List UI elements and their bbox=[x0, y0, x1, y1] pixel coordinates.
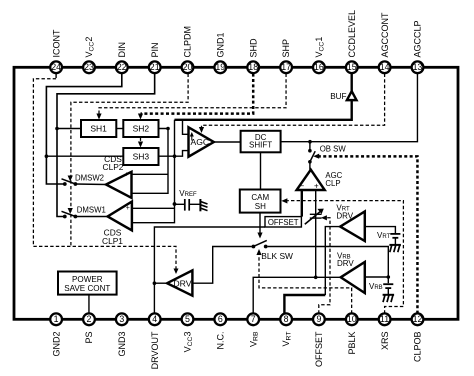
svg-text:17: 17 bbox=[281, 62, 291, 72]
wire CDS CLP2 upper input stub bbox=[132, 173, 169, 175]
ground VRB bbox=[383, 295, 395, 302]
svg-text:PBLK: PBLK bbox=[347, 332, 357, 355]
node AGC CLP plus ref junction bbox=[314, 276, 318, 280]
svg-text:+: + bbox=[314, 182, 319, 191]
pin 15 (CCDLEVEL) bbox=[346, 10, 358, 73]
switch DMSW1 bbox=[62, 205, 106, 218]
svg-text:SH1: SH1 bbox=[90, 124, 107, 134]
node VRB cap junction bbox=[387, 275, 391, 279]
svg-text:3: 3 bbox=[119, 314, 124, 324]
pin 8 (VRT) bbox=[280, 313, 292, 346]
wire SH2 to SH3 dashed arrow bbox=[140, 138, 142, 144]
pin 19 (GND1) bbox=[214, 32, 226, 73]
node SH3 input junction bbox=[45, 154, 49, 158]
wire VREF rail vertical bbox=[132, 120, 175, 223]
svg-text:−: − bbox=[299, 182, 304, 191]
wire CLPDM pin20 dashed to DMSW1/DMSW2 bbox=[71, 74, 188, 247]
svg-text:+: + bbox=[126, 205, 130, 212]
capacitor VREF bbox=[175, 199, 201, 211]
svg-text:AGC: AGC bbox=[191, 137, 210, 147]
node DRV output junction bbox=[153, 281, 157, 285]
wire POWER SAVE CONT to PS pin2 bbox=[88, 295, 90, 314]
block SH1 bbox=[81, 120, 116, 137]
svg-text:SAVE CONT: SAVE CONT bbox=[64, 284, 110, 293]
wire SH3 output bbox=[159, 151, 189, 157]
wire DC SHIFT to CAM SH bbox=[260, 152, 262, 189]
wire AGC CLP plus input ref bbox=[315, 190, 317, 277]
wire SH3 input tap bbox=[46, 155, 123, 157]
wire DC SHIFT output to AGCCLP pin13 bbox=[281, 74, 418, 142]
wire DIN pin22 to SH3/DMSW2 bbox=[46, 74, 121, 184]
svg-text:13: 13 bbox=[413, 62, 423, 72]
svg-text:18: 18 bbox=[248, 62, 258, 72]
switch BLK SW bbox=[252, 240, 294, 261]
pin 5 (VCC3) bbox=[182, 313, 194, 352]
wire CCDLEVEL rail to BUF bbox=[175, 100, 352, 120]
wire SH2 output to CDS CLP2 bbox=[132, 129, 169, 194]
svg-text:DMSW1: DMSW1 bbox=[77, 205, 106, 214]
arrowhead into CAM SH bbox=[281, 198, 287, 203]
pin 4 (DRVOUT) bbox=[149, 313, 161, 369]
svg-text:AGCCONT: AGCCONT bbox=[380, 12, 390, 58]
svg-text:19: 19 bbox=[215, 62, 225, 72]
arrowhead into SH1 bbox=[96, 114, 101, 120]
wire BLK SW output to VRB node bbox=[268, 247, 389, 278]
svg-text:PS: PS bbox=[84, 332, 94, 344]
svg-text:23: 23 bbox=[84, 62, 94, 72]
arrowhead onto DMSW2 bbox=[68, 176, 73, 182]
svg-text:SH2: SH2 bbox=[133, 124, 150, 134]
svg-text:22: 22 bbox=[117, 62, 127, 72]
svg-text:BUF: BUF bbox=[330, 92, 346, 101]
svg-text:DRV: DRV bbox=[337, 259, 354, 268]
arrowhead into DRV bbox=[174, 269, 179, 275]
wire AGC upper input stub bbox=[183, 120, 189, 135]
pin 9 (OFFSET) bbox=[313, 313, 325, 367]
switch DMSW2 bbox=[62, 174, 105, 186]
wire SH1 input tap bbox=[57, 128, 81, 130]
svg-text:12: 12 bbox=[413, 314, 423, 324]
pin 3 (GND3) bbox=[116, 313, 128, 356]
wire AGC output to DC SHIFT bbox=[214, 141, 241, 143]
capacitor VRB bbox=[383, 284, 393, 295]
node OB SW tap junction bbox=[308, 140, 312, 144]
svg-text:2: 2 bbox=[87, 314, 92, 324]
wire PBLK pin10 dashed to BLK SW bbox=[259, 254, 352, 314]
wire SHP pin17 dashed to SH1 bbox=[99, 74, 286, 115]
amp DRV bbox=[167, 270, 192, 295]
wire VRT cap stub bbox=[365, 227, 396, 234]
pin 13 (AGCCLP) bbox=[412, 20, 424, 73]
wire CDS CLP1 upper input stub bbox=[132, 207, 175, 209]
pin 21 (PIN) bbox=[149, 42, 161, 73]
pin 17 (SHP) bbox=[280, 39, 292, 73]
svg-text:DMSW2: DMSW2 bbox=[75, 174, 104, 183]
pin 24 (ICONT) bbox=[50, 29, 62, 73]
svg-text:CLP1: CLP1 bbox=[102, 236, 123, 246]
wire CLPOB pin12 bold dashed to OB SW bbox=[318, 156, 417, 313]
capacitor VRT bbox=[390, 234, 400, 245]
ground VREF bbox=[200, 199, 207, 211]
block POWER SAVE CONT bbox=[58, 272, 117, 295]
wire VRT DRV output to VRT pin8 bbox=[325, 227, 340, 295]
op-amp CDS CLP2 bbox=[103, 154, 132, 198]
svg-text:CLPDM: CLPDM bbox=[183, 26, 193, 58]
svg-text:DRVOUT: DRVOUT bbox=[150, 331, 160, 369]
svg-text:15: 15 bbox=[347, 62, 357, 72]
arrowhead onto OB SW bbox=[313, 154, 319, 159]
svg-text:PIN: PIN bbox=[150, 42, 160, 57]
pin 2 (PS) bbox=[83, 313, 95, 343]
arrowhead onto BLK SW bbox=[256, 249, 261, 255]
wire DMSW1 to CDS CLP1 bbox=[75, 216, 107, 218]
svg-text:AGCCLP: AGCCLP bbox=[413, 20, 423, 57]
pin 10 (PBLK) bbox=[346, 313, 358, 354]
pin 23 (VCC2) bbox=[83, 37, 95, 74]
svg-text:DRV: DRV bbox=[173, 279, 191, 289]
arrowhead into AGC bbox=[199, 127, 204, 133]
wire PIN pin21 to SH1/DMSW1 bbox=[57, 74, 155, 217]
amp VRB DRV bbox=[337, 252, 365, 293]
wire SH1 to SH2 bbox=[116, 128, 123, 130]
pin 14 (AGCCONT) bbox=[379, 12, 391, 73]
svg-text:OFFSET: OFFSET bbox=[268, 218, 299, 227]
block SH3 bbox=[123, 148, 158, 165]
block OFFSET bbox=[265, 217, 301, 227]
svg-text:CLPOB: CLPOB bbox=[413, 332, 423, 363]
svg-text:CLP: CLP bbox=[325, 179, 340, 188]
node SH1 input junction bbox=[55, 127, 59, 131]
svg-text:GND2: GND2 bbox=[51, 332, 61, 357]
pin 7 (VRB) bbox=[247, 313, 259, 347]
svg-text:XRS: XRS bbox=[380, 332, 390, 351]
svg-text:ICONT: ICONT bbox=[51, 29, 61, 58]
variable offset element bbox=[305, 209, 324, 225]
pin 16 (VCC1) bbox=[313, 37, 325, 74]
svg-text:SHP: SHP bbox=[281, 39, 291, 58]
wire VRB DRV input stub bbox=[365, 276, 389, 278]
wire DRV output stub bbox=[154, 282, 167, 284]
wire XRS pin11 dashed to CAM SH bbox=[288, 201, 404, 314]
svg-text:4: 4 bbox=[152, 314, 157, 324]
wire AGCCONT pin14 dashed to AGC bbox=[202, 74, 385, 129]
op-amp CDS CLP1 bbox=[102, 202, 132, 246]
svg-text:CCDLEVEL: CCDLEVEL bbox=[347, 10, 357, 58]
svg-text:SH: SH bbox=[255, 202, 266, 211]
svg-text:DRV: DRV bbox=[336, 211, 353, 220]
svg-text:14: 14 bbox=[380, 62, 390, 72]
svg-text:SH3: SH3 bbox=[133, 152, 150, 162]
op-amp AGC bbox=[189, 127, 214, 156]
svg-text:11: 11 bbox=[380, 314, 389, 324]
svg-text:21: 21 bbox=[150, 62, 160, 72]
buffer BUF bbox=[330, 91, 356, 101]
svg-text:10: 10 bbox=[347, 314, 357, 324]
svg-text:5: 5 bbox=[185, 314, 190, 324]
arrowhead into SH2 bbox=[138, 114, 143, 120]
amp VRT DRV bbox=[336, 204, 364, 241]
node VREF junction bbox=[173, 202, 177, 206]
arrowhead onto offset element bbox=[321, 215, 327, 220]
wire ICONT pin24 dashed control to DRV bbox=[55, 74, 57, 78]
block DC SHIFT bbox=[241, 131, 281, 153]
block CAM SH bbox=[240, 190, 281, 213]
pin 1 (GND2) bbox=[50, 313, 62, 356]
svg-text:8: 8 bbox=[284, 314, 289, 324]
wire BLK SW to DRV input bbox=[192, 247, 251, 284]
node SH3 output junction bbox=[173, 154, 177, 158]
wire BUF output to pin15 bbox=[351, 74, 353, 92]
pin 20 (CLPDM) bbox=[182, 26, 194, 73]
IC body border bbox=[14, 67, 458, 319]
pin 6 (N.C.) bbox=[214, 313, 226, 349]
svg-text:1: 1 bbox=[54, 314, 59, 324]
svg-text:6: 6 bbox=[218, 314, 223, 324]
pin 22 (DIN) bbox=[116, 42, 128, 73]
pin 11 (XRS) bbox=[379, 313, 391, 350]
wire offset rail to DRVOUT pin4 bbox=[154, 227, 265, 314]
wire CAM SH output tap arrow bbox=[259, 213, 261, 234]
svg-text:16: 16 bbox=[314, 62, 324, 72]
svg-text:POWER: POWER bbox=[72, 275, 103, 284]
wire VRB DRV output to VRB pin7 bbox=[253, 277, 341, 313]
node SH2 output junction bbox=[166, 127, 170, 131]
wire OFFSET pin9 dashed to variable element bbox=[319, 218, 330, 314]
svg-text:DIN: DIN bbox=[117, 42, 127, 58]
svg-text:SHD: SHD bbox=[248, 38, 258, 58]
wire SHD pin18 bold dashed to SH2 bbox=[141, 74, 254, 114]
op-amp AGC CLP bbox=[297, 170, 343, 191]
wire DMSW2 to CDS CLP2 bbox=[75, 183, 106, 186]
svg-text:BLK SW: BLK SW bbox=[261, 251, 293, 261]
svg-text:20: 20 bbox=[183, 62, 193, 72]
arrowhead onto DMSW1 bbox=[68, 208, 73, 214]
svg-text:7: 7 bbox=[251, 314, 256, 324]
svg-text:OFFSET: OFFSET bbox=[314, 331, 324, 367]
svg-text:OB SW: OB SW bbox=[320, 144, 347, 153]
pin 12 (CLPOB) bbox=[412, 313, 424, 362]
switch OB SW bbox=[308, 142, 346, 170]
svg-text:9: 9 bbox=[316, 314, 321, 324]
block SH2 bbox=[123, 120, 158, 137]
wire AGC CLP minus input to OFFSET bbox=[301, 190, 303, 217]
svg-text:SHIFT: SHIFT bbox=[249, 140, 272, 149]
svg-text:CLP2: CLP2 bbox=[103, 162, 124, 172]
svg-text:+: + bbox=[124, 172, 128, 179]
pin 18 (SHD) bbox=[247, 38, 259, 73]
svg-text:GND3: GND3 bbox=[117, 332, 127, 357]
ground VRT bbox=[389, 245, 401, 252]
svg-text:GND1: GND1 bbox=[216, 32, 226, 57]
svg-text:N.C.: N.C. bbox=[216, 332, 226, 350]
svg-text:24: 24 bbox=[51, 62, 61, 72]
